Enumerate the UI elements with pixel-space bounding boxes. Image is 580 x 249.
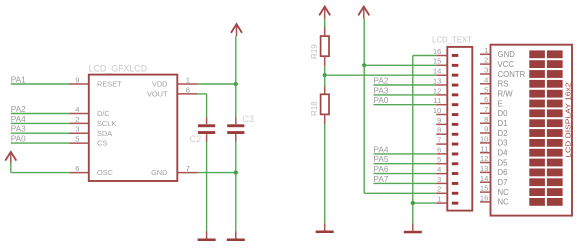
LCD character block row 9 [529, 129, 562, 137]
junction VDD rail [234, 82, 238, 86]
pin 16 NC (LCD display) [480, 194, 509, 207]
wire net PA1 [11, 83, 69, 85]
svg-text:D/C: D/C [97, 109, 110, 118]
LCD character block row 5 [529, 90, 562, 98]
svg-text:5: 5 [75, 135, 79, 144]
svg-text:D5: D5 [498, 158, 509, 167]
svg-text:8: 8 [484, 115, 488, 124]
svg-text:9: 9 [75, 75, 79, 84]
pin 3 CONTR (LCD display) [480, 66, 526, 79]
svg-text:8: 8 [186, 85, 190, 94]
svg-text:OSC: OSC [97, 168, 114, 177]
svg-text:PA4: PA4 [374, 145, 389, 154]
wire C2 to ground [206, 142, 208, 232]
label LCD DISPLAY 16x2 [563, 83, 572, 158]
svg-text:LCD_GFXLCD: LCD_GFXLCD [89, 63, 148, 73]
pin 13 D6 (LCD display) [480, 164, 508, 177]
svg-text:16: 16 [433, 47, 441, 56]
pin 15 NC (LCD display) [480, 184, 509, 197]
svg-text:GND: GND [498, 50, 516, 59]
svg-text:12: 12 [480, 154, 488, 163]
svg-text:RS: RS [498, 80, 509, 89]
node PA2 label [11, 105, 26, 114]
label C3 [242, 114, 254, 124]
wire net PA6 (pin 4) [374, 173, 437, 175]
svg-text:D1: D1 [498, 119, 508, 128]
svg-text:PA0: PA0 [374, 96, 389, 105]
ground symbol (C3) [227, 231, 245, 241]
pin 14 D7 (LCD display) [480, 174, 508, 187]
LCD character block row 4 [529, 80, 562, 88]
junction GND rail [234, 171, 238, 175]
svg-text:C3: C3 [242, 114, 254, 124]
pin 4 D/C [69, 105, 110, 118]
svg-text:14: 14 [433, 67, 441, 76]
pin 11 D4 (LCD display) [480, 144, 508, 157]
svg-text:D7: D7 [498, 178, 508, 187]
wire VDD to VCC rail [197, 83, 236, 85]
wire junction to pin 15 [364, 64, 436, 66]
label R18 [310, 101, 319, 116]
wire VCC rail down to junction [235, 36, 237, 84]
resistor R19 [321, 27, 329, 66]
svg-text:7: 7 [186, 164, 190, 173]
svg-text:PA5: PA5 [374, 155, 389, 164]
svg-text:6: 6 [437, 145, 441, 154]
wire net PA4 (pin 6) [374, 153, 437, 155]
svg-text:16: 16 [480, 194, 488, 203]
LCD character block row 7 [529, 109, 562, 117]
svg-text:10: 10 [480, 135, 488, 144]
svg-text:9: 9 [437, 116, 441, 125]
resistor R18 [321, 87, 329, 125]
svg-text:6: 6 [75, 164, 79, 173]
svg-text:1: 1 [484, 46, 488, 55]
pin 6 OSC [69, 164, 114, 177]
svg-text:NC: NC [498, 198, 510, 207]
svg-text:SCLK: SCLK [97, 119, 116, 128]
svg-text:15: 15 [480, 184, 488, 193]
LCD display module body [491, 45, 573, 216]
wire R19 to junction [324, 66, 326, 75]
label LCD_GFXLCD [89, 63, 148, 73]
svg-text:E: E [498, 99, 503, 108]
pin 5 R/W (LCD display) [480, 85, 513, 98]
svg-text:11: 11 [480, 144, 488, 153]
wire net PA0 [11, 142, 69, 144]
svg-text:PA4: PA4 [11, 115, 26, 124]
LCD character block row 2 [529, 60, 562, 68]
pin 8 D1 (LCD display) [480, 115, 507, 128]
svg-text:D2: D2 [498, 129, 508, 138]
svg-text:PA3: PA3 [11, 125, 26, 134]
wire VOUT down to C2 [206, 94, 208, 118]
svg-text:9: 9 [484, 125, 488, 134]
svg-text:PA1: PA1 [11, 75, 26, 84]
wire net PA7 (pin 3) [374, 182, 437, 184]
node PA4 label [11, 115, 26, 124]
svg-text:5: 5 [437, 155, 441, 164]
pin 9 LCD_TEXT [436, 116, 458, 126]
node PA6 label [374, 165, 389, 174]
LCD character block row 6 [529, 100, 562, 108]
pin 12 D5 (LCD display) [480, 154, 508, 167]
pin 9 D2 (LCD display) [480, 125, 507, 138]
IC U1 LCD_GFXLCD body [89, 75, 178, 181]
wire VCC rail down to pin2 row [363, 65, 365, 193]
svg-text:SDA: SDA [97, 129, 112, 138]
svg-text:2: 2 [75, 115, 79, 124]
svg-text:GND: GND [151, 168, 167, 177]
svg-text:1: 1 [186, 75, 190, 84]
svg-text:1: 1 [437, 195, 441, 204]
svg-text:PA2: PA2 [374, 76, 389, 85]
svg-text:R18: R18 [310, 101, 319, 116]
pin 2 SCLK [69, 115, 116, 128]
svg-text:3: 3 [437, 175, 441, 184]
svg-text:C2: C2 [190, 134, 202, 144]
power supply arrow (R19 rail) [319, 7, 330, 19]
node PA3 label [11, 125, 26, 134]
svg-text:PA3: PA3 [374, 86, 389, 95]
power supply arrow (VCC rail right) [358, 7, 369, 19]
ground symbol (C2) [198, 231, 216, 241]
svg-text:10: 10 [433, 106, 441, 115]
ground symbol (R18) [316, 223, 334, 233]
capacitor C3 [227, 118, 244, 142]
svg-text:13: 13 [480, 164, 488, 173]
svg-text:VDD: VDD [152, 80, 168, 89]
wire pin 1 to GND rail [413, 202, 436, 204]
svg-text:3: 3 [75, 125, 79, 134]
node PA0 label [11, 135, 26, 144]
wire VOUT horizontal [197, 93, 207, 95]
pin 2 VCC (LCD display) [480, 56, 514, 69]
wire net PA2 (pin 13) [374, 84, 437, 86]
wire GND pin to rail [197, 172, 236, 174]
svg-text:15: 15 [433, 57, 441, 66]
svg-text:PA0: PA0 [11, 135, 26, 144]
pin 2 LCD_TEXT [436, 185, 458, 195]
svg-text:3: 3 [484, 66, 488, 75]
node PA4 label [374, 145, 389, 154]
svg-text:NC: NC [498, 188, 510, 197]
svg-text:7: 7 [437, 136, 441, 145]
svg-text:R19: R19 [310, 44, 319, 59]
LCD character block row 1 [529, 50, 562, 58]
wire net PA4 [11, 122, 69, 124]
node PA5 label [374, 155, 389, 164]
wire arrow to R19 [324, 19, 326, 27]
LCD character block row 3 [529, 70, 562, 78]
wire R18 to ground [324, 124, 326, 223]
svg-text:RESET: RESET [97, 80, 122, 89]
pin 3 LCD_TEXT [436, 175, 458, 185]
pin 11 LCD_TEXT [433, 96, 458, 106]
pin 12 LCD_TEXT [433, 86, 458, 96]
pin 1 GND (LCD display) [480, 46, 515, 59]
wire net PA5 (pin 5) [374, 163, 437, 165]
wire OSC net horizontal [11, 172, 69, 174]
svg-text:VOUT: VOUT [147, 90, 168, 99]
svg-text:PA2: PA2 [11, 105, 26, 114]
LCD character block row 13 [529, 169, 562, 177]
label R19 [310, 44, 319, 59]
pin 6 LCD_TEXT [436, 145, 458, 155]
pin 13 LCD_TEXT [433, 76, 458, 86]
pin 16 LCD_TEXT [433, 47, 458, 57]
label C2 [190, 134, 202, 144]
wire VCC rail down [363, 19, 365, 66]
label LCD_TEXT [432, 35, 472, 44]
wire net PA3 (pin 12) [374, 94, 437, 96]
svg-text:CS: CS [97, 139, 107, 148]
wire divider junction to R18 [324, 75, 326, 86]
svg-text:D6: D6 [498, 168, 508, 177]
junction GND rail pin1 [411, 201, 415, 205]
pin 7 D0 (LCD display) [480, 105, 508, 118]
svg-text:5: 5 [484, 85, 488, 94]
pin 1 VDD [152, 75, 197, 88]
node PA2 label [374, 76, 389, 85]
svg-text:D4: D4 [498, 149, 509, 158]
svg-text:PA6: PA6 [374, 165, 389, 174]
svg-text:6: 6 [484, 95, 488, 104]
svg-text:LCD DISPLAY 16x2: LCD DISPLAY 16x2 [563, 83, 572, 158]
svg-text:7: 7 [484, 105, 488, 114]
wire net PA3 [11, 132, 69, 134]
svg-text:VCC: VCC [498, 60, 515, 69]
connector J1 LCD_TEXT body [447, 47, 472, 211]
pin 9 RESET [69, 75, 122, 88]
wire GND rail to ground [412, 203, 414, 223]
svg-text:11: 11 [433, 96, 441, 105]
wire pin 16 to GND rail [413, 55, 436, 57]
wire C3 to GND junction [235, 142, 237, 173]
LCD character block row 16 [529, 198, 562, 206]
pin 7 GND [151, 164, 197, 177]
pin 14 LCD_TEXT [433, 67, 458, 77]
wire divider junction to pin 14 [325, 74, 437, 76]
power supply arrow VCC (left circuit) [231, 24, 242, 36]
pin 1 LCD_TEXT [436, 195, 458, 205]
LCD character block row 14 [529, 178, 562, 186]
pin 4 RS (LCD display) [480, 75, 508, 88]
LCD character block row 8 [529, 119, 562, 127]
wire junction to ground [235, 173, 237, 232]
svg-text:R/W: R/W [498, 90, 514, 99]
svg-text:4: 4 [484, 75, 488, 84]
svg-text:D3: D3 [498, 139, 508, 148]
pin 6 E (LCD display) [480, 95, 503, 108]
svg-text:14: 14 [480, 174, 488, 183]
svg-text:13: 13 [433, 76, 441, 85]
svg-text:2: 2 [484, 56, 488, 65]
node PA1 label [11, 75, 26, 84]
pin 10 D3 (LCD display) [480, 135, 508, 148]
pin 10 LCD_TEXT [433, 106, 458, 116]
svg-text:LCD_TEXT: LCD_TEXT [432, 35, 472, 44]
ground symbol (connector) [404, 224, 422, 234]
wire net PA0 (pin 11) [374, 104, 437, 106]
wire VCC to pin 2 [364, 192, 436, 194]
capacitor C2 [198, 118, 215, 142]
LCD character block row 12 [529, 159, 562, 167]
power supply arrow (OSC net) [5, 152, 16, 164]
wire net PA2 [11, 113, 69, 115]
node PA0 label [374, 96, 389, 105]
pin 7 LCD_TEXT [436, 136, 458, 146]
node PA3 label [374, 86, 389, 95]
junction contrast divider [323, 73, 327, 77]
svg-text:12: 12 [433, 86, 441, 95]
svg-text:D0: D0 [498, 109, 509, 118]
pin 8 LCD_TEXT [436, 126, 458, 136]
svg-text:2: 2 [437, 185, 441, 194]
svg-text:CONTR: CONTR [498, 70, 526, 79]
pin 15 LCD_TEXT [433, 57, 458, 67]
wire VCC rail junction to C3 [235, 84, 237, 118]
pin 5 CS [69, 135, 107, 148]
pin 4 LCD_TEXT [436, 165, 458, 175]
svg-text:4: 4 [75, 105, 79, 114]
pin 3 SDA [69, 125, 112, 138]
pin 5 LCD_TEXT [436, 155, 458, 165]
pin 8 VOUT [147, 85, 197, 98]
LCD character block row 10 [529, 139, 562, 147]
wire OSC net vertical [10, 163, 12, 173]
svg-text:PA7: PA7 [374, 175, 389, 184]
junction VCC rail pin15 [362, 63, 366, 67]
svg-text:4: 4 [437, 165, 441, 174]
LCD character block row 11 [529, 149, 562, 157]
svg-text:8: 8 [437, 126, 441, 135]
wire GND rail vertical [412, 56, 414, 204]
node PA7 label [374, 175, 389, 184]
LCD character block row 15 [529, 188, 562, 196]
